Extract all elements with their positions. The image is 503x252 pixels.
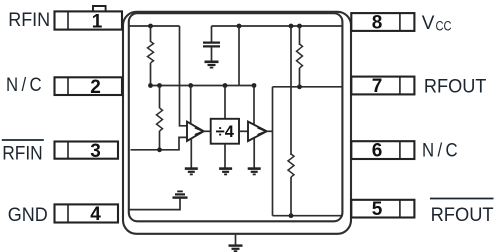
svg-text:RFOUT: RFOUT (431, 205, 494, 226)
pin 3 label RFIN overline (2, 140, 44, 165)
node dot on pin5 wire at R4 (289, 213, 294, 218)
wire pin3 input net (131, 137, 187, 149)
svg-text:GND: GND (8, 205, 48, 226)
node dot bus2 right end (252, 83, 257, 88)
resistor R1 (148, 26, 154, 86)
wire bias bus (second bus) (151, 85, 255, 87)
pin 5 label RFOUT overline (430, 199, 494, 227)
svg-text:2: 2 (90, 77, 101, 98)
wire center drop bus1 to bus2 (238, 26, 240, 86)
node dot bus2 at amp supply (188, 83, 193, 88)
resistor R2 (157, 86, 163, 150)
wire amp ground drop (190, 139, 192, 168)
svg-text:RFOUT: RFOUT (424, 77, 487, 98)
ground under input buffer (185, 169, 198, 175)
wire gnd pin4 to center ground (130, 199, 181, 210)
wire input upper: down from bus to amp input (180, 26, 187, 126)
package outline U1 outer (123, 12, 351, 234)
wire output buffer ground drop (253, 138, 255, 168)
pin 8 box (351, 13, 414, 31)
svg-text:N / C: N / C (6, 75, 42, 96)
capacitor C1 top wire (211, 26, 213, 42)
wire divider to output buffer (239, 130, 248, 132)
node dot bus at center drop (237, 24, 242, 29)
ground under capacitor (205, 62, 219, 68)
node dot bus2 at divider supply (223, 83, 228, 88)
pin 5 box (351, 200, 414, 218)
inverted ground symbol center (173, 191, 188, 197)
package outline U1 inner (129, 13, 343, 221)
svg-text:4: 4 (90, 204, 101, 225)
svg-text:5: 5 (372, 199, 383, 220)
svg-text:7: 7 (372, 76, 383, 97)
resistor R3 (297, 26, 303, 87)
ground symbol below package (229, 246, 243, 252)
svg-text:RFIN: RFIN (8, 10, 50, 31)
resistor R4 (288, 26, 294, 216)
ground under output buffer (248, 169, 261, 175)
pin 6 box (351, 141, 414, 159)
node dot bus2 left end (148, 83, 153, 88)
svg-text:÷4: ÷4 (216, 123, 235, 141)
capacitor C1 bottom wire (211, 47, 213, 61)
node dot pin3 net at R2 bottom (157, 147, 162, 152)
wire amp to divider (204, 130, 211, 132)
pin 1 box (55, 11, 123, 29)
svg-text:CC: CC (436, 19, 452, 34)
wire output vertical rail (272, 87, 274, 216)
svg-text:3: 3 (90, 141, 101, 162)
svg-text:V: V (422, 13, 435, 34)
svg-text:8: 8 (372, 12, 383, 33)
node junction dot on bus at R1 top (148, 24, 153, 29)
svg-text:1: 1 (92, 11, 103, 32)
pin 2 box (55, 77, 123, 95)
wire divider supply drop (224, 86, 226, 119)
capacitor C1 (203, 43, 220, 47)
pin 3 box (55, 142, 119, 159)
svg-text:N / C: N / C (422, 141, 458, 162)
node dot bus at R3 (297, 24, 302, 29)
wire amp supply drop (190, 86, 192, 125)
node dot bus2 at R2 (157, 83, 162, 88)
pin 7 box (351, 77, 414, 95)
wire RFOUT to pin 7 (273, 86, 342, 88)
pin 1 marker tab (93, 6, 106, 11)
pin 8 label VCC (422, 13, 452, 34)
wire vcc bus top-left segment (130, 25, 180, 27)
wire output buffer supply drop (253, 86, 255, 125)
wire output buffer tip to output rail (267, 130, 273, 132)
wire vcc bus top-right segment (212, 25, 342, 27)
svg-text:6: 6 (372, 140, 383, 161)
ground under divider (219, 169, 232, 175)
wire divider ground drop (224, 144, 226, 168)
op-amp output buffer A2 (248, 122, 267, 141)
op-amp input buffer A1 (187, 122, 204, 141)
divide-by-4 block U2 (211, 119, 239, 144)
node dot bus at R4 (289, 24, 294, 29)
pin 4 box (55, 204, 119, 222)
wire package ground stub (235, 234, 237, 245)
wire RFOUTbar to pin 5 (273, 215, 342, 217)
node dot on pin7 wire at R3 (297, 84, 302, 89)
svg-text:RFIN: RFIN (2, 144, 43, 165)
